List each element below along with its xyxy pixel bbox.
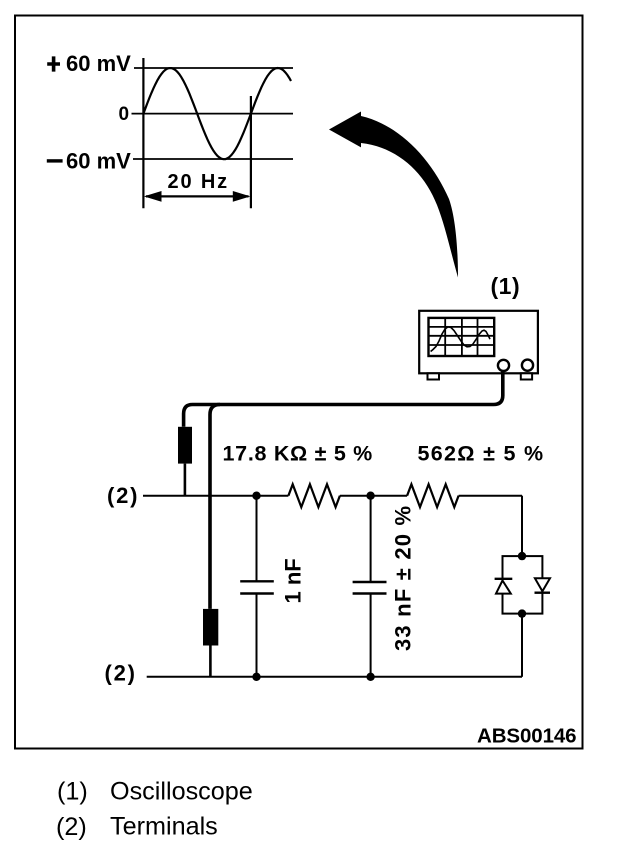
svg-text:(1): (1) bbox=[491, 273, 521, 299]
svg-text:0: 0 bbox=[119, 104, 130, 125]
waveform graph: +60 level line bbox=[134, 67, 293, 69]
diode D1 triangle bbox=[496, 581, 511, 594]
diode D2 (right, pointing down): triangle bbox=[535, 578, 550, 591]
probe bar 2 bbox=[203, 609, 218, 646]
capacitor C2 top lead bbox=[370, 496, 372, 582]
svg-text:20 Hz: 20 Hz bbox=[168, 171, 230, 193]
screen grid bbox=[444, 318, 446, 356]
junction dot bottom C2 bbox=[366, 673, 374, 681]
probe1 lead to top rail bbox=[184, 464, 187, 496]
label +60 mV : plus sign bbox=[47, 56, 60, 71]
resistor R1 zigzag bbox=[288, 484, 340, 507]
svg-text:Terminals: Terminals bbox=[110, 813, 218, 841]
oscilloscope terminal right bbox=[522, 360, 533, 371]
cable B to probe2 bbox=[210, 405, 220, 609]
waveform graph: vertical axis bbox=[142, 58, 144, 208]
svg-text:60 mV: 60 mV bbox=[66, 148, 131, 173]
probe bar 1 bbox=[178, 427, 192, 464]
svg-text:33 nF ± 20 %: 33 nF ± 20 % bbox=[391, 505, 416, 651]
oscilloscope foot left bbox=[428, 373, 440, 379]
svg-text:17.8 KΩ ± 5 %: 17.8 KΩ ± 5 % bbox=[223, 441, 373, 465]
label -60 mV : minus sign bbox=[47, 159, 63, 162]
diode D1 (left, pointing up): cathode bar bbox=[495, 578, 513, 580]
cable A from scope terminal to probe1 bbox=[184, 371, 503, 427]
waveform graph: right vertical tick bbox=[250, 96, 252, 208]
diode D2 cathode bar bbox=[535, 592, 551, 594]
svg-text:1 nF: 1 nF bbox=[281, 558, 306, 603]
svg-text:(2): (2) bbox=[105, 661, 137, 686]
junction dot diode top bbox=[518, 552, 526, 560]
wire rail to diode box bbox=[521, 496, 523, 556]
bottom rail bbox=[147, 676, 522, 678]
top rail bbox=[143, 495, 288, 497]
svg-text:(2): (2) bbox=[107, 483, 139, 508]
junction dot top C1 bbox=[252, 492, 260, 500]
capacitor C2 bottom lead bbox=[370, 594, 372, 677]
svg-text:60 mV: 60 mV bbox=[66, 51, 131, 76]
junction dot bottom C1 bbox=[252, 673, 260, 681]
border frame bbox=[15, 16, 583, 749]
capacitor C1 bottom lead bbox=[256, 594, 258, 677]
dimension arrow 20Hz bbox=[146, 195, 249, 197]
capacitor C1 top lead bbox=[256, 496, 258, 582]
resistor R2 zigzag bbox=[407, 484, 459, 507]
screen trace bbox=[431, 327, 490, 352]
waveform graph: -60 level line bbox=[133, 158, 293, 160]
capacitor C2 plates bbox=[353, 581, 387, 583]
curved arrow bbox=[329, 112, 361, 148]
probe2 lead to bottom rail bbox=[209, 646, 212, 677]
svg-text:(1): (1) bbox=[57, 777, 88, 805]
svg-text:(2): (2) bbox=[56, 813, 87, 841]
svg-text:562Ω ± 5 %: 562Ω ± 5 % bbox=[418, 441, 545, 465]
capacitor C1 plates bbox=[240, 580, 274, 582]
junction dot top C2 bbox=[366, 492, 374, 500]
waveform graph: 0 level line bbox=[132, 113, 294, 115]
junction dot diode bottom bbox=[518, 609, 526, 617]
sine wave bbox=[143, 68, 291, 159]
oscilloscope terminal left bbox=[498, 360, 509, 371]
oscilloscope foot right bbox=[521, 373, 532, 379]
oscilloscope U1: body bbox=[419, 311, 538, 374]
diode box outline bbox=[503, 556, 543, 614]
oscilloscope screen bbox=[429, 318, 495, 356]
svg-text:ABS00146: ABS00146 bbox=[477, 725, 577, 748]
svg-text:Oscilloscope: Oscilloscope bbox=[110, 778, 253, 806]
